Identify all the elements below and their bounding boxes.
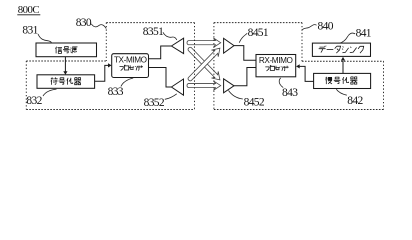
wire 831 to 832 with arrow <box>64 57 66 72</box>
leader 830 <box>91 24 106 29</box>
channel arrow D1 diagonal down-right <box>188 47 220 80</box>
svg-text:RX-MIMO: RX-MIMO <box>259 56 293 65</box>
wire 842 to 843 with arrow <box>300 66 314 81</box>
dashed box 840 right edge <box>383 61 385 109</box>
leader 8452 <box>229 91 243 100</box>
svg-text:8351: 8351 <box>143 26 164 38</box>
channel arrow H1 top straight <box>187 38 221 47</box>
dashed box 830 left edge <box>25 61 27 110</box>
dashed box 840 notch vertical <box>301 23 303 62</box>
svg-text:8352: 8352 <box>144 97 165 109</box>
text encoder <box>51 78 58 85</box>
leader 842 <box>336 89 347 95</box>
text signal source <box>55 47 62 54</box>
leader 833 <box>121 78 133 86</box>
svg-text:841: 841 <box>356 28 372 40</box>
box 832 encoder <box>37 75 95 89</box>
channel arrow D2 diagonal up-right <box>188 48 220 81</box>
box 833 TX-MIMO processor <box>112 54 149 78</box>
wire 842 to 841 with arrow <box>342 61 344 74</box>
leader 840 <box>302 25 316 30</box>
wire 833 to antenna 8351 <box>149 46 172 59</box>
leader 8352 <box>165 94 177 100</box>
leader 8351 <box>163 32 177 40</box>
dashed box 830 notch horizontal <box>26 60 106 62</box>
leader 8451 <box>239 33 247 42</box>
box 843 RX-MIMO processor <box>256 55 296 77</box>
leader 843 <box>279 78 283 88</box>
dashed box 840 left edge <box>213 23 215 110</box>
antenna 8352 <box>171 79 183 95</box>
dashed box 830 right edge <box>194 23 196 110</box>
dashed box 840 bottom edge <box>214 109 384 111</box>
dashed box 830 bottom edge <box>26 109 194 111</box>
text data sink <box>319 46 327 53</box>
svg-text:831: 831 <box>22 25 38 37</box>
svg-text:8451: 8451 <box>248 27 269 39</box>
wire 833 to antenna 8352 <box>149 68 172 88</box>
wire 832 to 833 with arrow <box>95 65 109 81</box>
channel arrow H2 bottom straight <box>187 81 221 90</box>
leader 832 <box>43 89 57 96</box>
dashed box 830 transmitter top edge <box>106 22 194 24</box>
box 841 data sink <box>312 43 370 56</box>
svg-text:833: 833 <box>108 86 124 98</box>
dashed box 840 receiver top edge <box>214 22 302 24</box>
svg-text:832: 832 <box>26 95 42 107</box>
text decoder <box>326 77 333 84</box>
text processor small tx <box>120 65 126 71</box>
wire antenna 8452 to RX-MIMO <box>234 68 256 86</box>
box 842 decoder <box>314 73 371 88</box>
svg-text:TX-MIMO: TX-MIMO <box>114 56 147 65</box>
dashed box 840 step horizontal <box>302 60 384 62</box>
antenna 8351 <box>171 38 183 53</box>
svg-text:830: 830 <box>76 17 92 29</box>
dashed box 830 notch vertical <box>105 23 107 61</box>
antenna 8451 <box>224 38 234 53</box>
svg-text:8452: 8452 <box>244 96 265 108</box>
box 831 signal source <box>36 43 97 57</box>
leader 831 <box>38 34 52 43</box>
antenna 8452 <box>224 79 234 93</box>
svg-text:843: 843 <box>282 87 298 99</box>
text processor small rx <box>265 66 271 72</box>
svg-text:842: 842 <box>347 95 363 107</box>
svg-text:840: 840 <box>318 20 334 32</box>
leader 841 <box>340 33 356 43</box>
wire antenna 8451 to RX-MIMO <box>234 46 256 61</box>
